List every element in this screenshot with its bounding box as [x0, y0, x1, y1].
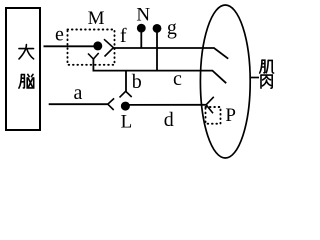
- svg-text:a: a: [74, 82, 83, 104]
- svg-text:M: M: [88, 8, 105, 29]
- svg-text:f: f: [120, 25, 127, 47]
- svg-text:e: e: [55, 24, 64, 46]
- svg-text:L: L: [121, 112, 133, 133]
- svg-text:g: g: [167, 17, 177, 39]
- svg-text:P: P: [225, 105, 236, 126]
- svg-text:b: b: [132, 71, 142, 93]
- svg-text:c: c: [173, 68, 182, 90]
- svg-text:N: N: [136, 4, 150, 25]
- svg-text:d: d: [164, 109, 174, 131]
